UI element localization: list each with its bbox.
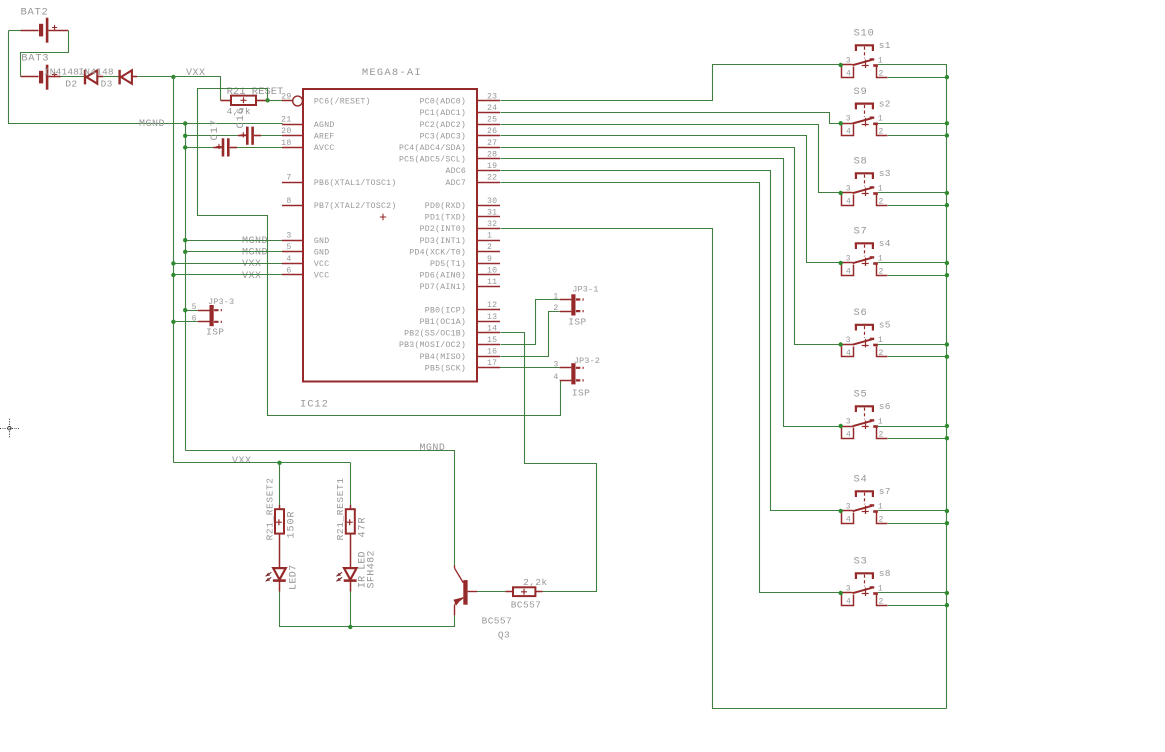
svg-text:VXX: VXX [242,271,262,282]
wire VXX to R21_RESET1 [350,463,352,505]
node C16 left junction [183,134,187,138]
svg-text:S3: S3 [854,556,868,568]
wire S7 pin1 to trunk [878,262,947,264]
wire PC4/ADC4 pin27 to S6 [501,148,841,345]
svg-text:MEGA8-AI: MEGA8-AI [362,67,422,79]
svg-text:JP3-1: JP3-1 [572,285,598,295]
pin 12 PB0(ICP) [477,309,500,311]
wire VXX bottom rail [174,462,351,464]
wire S4 pin2 to trunk [888,523,947,525]
wire S10 pin1 to trunk [878,64,947,66]
pin 27 PC4(ADC4/SDA) [477,147,500,149]
svg-text:32: 32 [487,220,497,229]
svg-text:R21_RESET: R21_RESET [227,86,284,98]
node S7 pin3 junction [839,261,843,265]
svg-text:19: 19 [487,162,497,171]
svg-text:4: 4 [846,515,851,524]
wire RESET net loop to JP3-2 pin 4 [198,89,561,416]
battery BAT2 [21,30,39,32]
pin 9 PD5(T1) [477,263,500,265]
svg-text:3: 3 [846,56,851,65]
svg-text:JP3-2: JP3-2 [574,356,600,366]
node S4 pin3 junction [839,509,843,513]
wire PB2/SS pin14 to base resistor [501,333,597,592]
svg-text:ISP: ISP [568,316,586,327]
switch S7 [841,262,853,264]
pin 3 GND [282,240,303,242]
capacitor C16 [185,135,238,137]
svg-text:2,2k: 2,2k [523,577,547,588]
svg-text:S6: S6 [854,307,868,319]
node S8 pin3 junction [839,191,843,195]
resistor R21_RESET1 [350,505,352,509]
pin 25 PC2(ADC2) [477,124,500,126]
svg-text:4: 4 [846,349,851,358]
pin 31 PD1(TXD) [477,216,500,218]
switch S4 [841,510,853,512]
wire PC3/ADC3 pin26 to S7 [501,136,841,263]
pin 20 AREF [282,135,303,137]
svg-text:28: 28 [487,150,497,159]
node trunk junction S9 pin2 row [945,133,949,137]
pin 32 PD2(INT0) [477,228,500,230]
node junction JP3-3 pin6 [171,320,175,324]
pin 26 PC3(ADC3) [477,135,500,137]
pin 24 PC1(ADC1) [477,112,500,114]
wire S5 pin1 to trunk [878,426,947,428]
wire S8 pin2 to trunk [888,205,947,207]
svg-text:R21_RESET2: R21_RESET2 [264,477,275,540]
wire PC2/ADC2 pin25 to S8 [501,125,841,193]
capacitor C17 [185,147,213,149]
svg-text:1: 1 [878,254,883,263]
svg-text:18: 18 [281,139,291,148]
svg-text:22: 22 [487,174,497,183]
wire D3 to VXX node [137,76,173,78]
svg-text:s8: s8 [879,568,891,579]
svg-text:1: 1 [878,115,883,124]
diode D2 [84,70,86,85]
wire S9 pin2 to trunk [888,135,947,137]
wire S8 pin1 to trunk [878,192,947,194]
svg-text:PD3(INT1): PD3(INT1) [420,236,466,246]
svg-text:s1: s1 [879,40,891,51]
svg-text:2: 2 [879,430,884,439]
svg-text:23: 23 [487,92,497,101]
svg-text:8: 8 [286,197,291,206]
svg-text:s4: s4 [879,238,891,249]
wire PB4 MISO to JP3-1 pin 2 [501,312,560,357]
wire S9 pin1 to trunk [878,123,947,125]
node RESET junction at R21 right [265,98,269,102]
pin 19 ADC6 [477,170,500,172]
svg-text:PC3(ADC3): PC3(ADC3) [420,131,466,141]
pin 4 VCC [282,263,303,265]
pin 29 PC6(/RESET) [282,100,293,102]
svg-text:LED7: LED7 [289,564,300,590]
node trunk junction S4 pin2 row [945,521,949,525]
svg-text:MGND: MGND [242,236,268,247]
svg-text:4: 4 [846,197,851,206]
svg-text:20: 20 [281,127,291,136]
svg-text:5: 5 [286,243,291,252]
svg-text:4: 4 [846,430,851,439]
node junction pin6 [171,273,175,277]
svg-text:S7: S7 [854,226,868,238]
svg-text:3: 3 [846,336,851,345]
svg-text:PD4(XCK/T0): PD4(XCK/T0) [409,247,466,257]
node VXX bottom junction [277,461,281,465]
node trunk junction S6 pin2 row [945,355,949,359]
svg-text:SFH482: SFH482 [367,550,378,588]
svg-text:GND: GND [314,237,330,246]
svg-text:IN4148: IN4148 [44,67,80,78]
svg-text:PC1(ADC1): PC1(ADC1) [420,108,466,118]
svg-text:C16: C16 [235,107,247,128]
node trunk junction S7 pin2 row [945,273,949,277]
svg-text:26: 26 [487,127,497,136]
svg-text:MGND: MGND [419,443,445,454]
svg-text:10: 10 [487,266,497,275]
wire VXX vertical rail [173,77,175,463]
svg-text:ADC6: ADC6 [445,167,466,176]
node junction pin4 [171,261,175,265]
svg-text:4: 4 [553,373,558,382]
svg-text:PD6(AIN0): PD6(AIN0) [420,271,466,281]
wire MGND vertical rail [185,124,187,451]
svg-text:Q3: Q3 [498,629,510,640]
resistor 2,2k base resistor [506,591,514,593]
svg-text:AVCC: AVCC [314,144,335,153]
svg-text:2: 2 [879,597,884,606]
node junction pin5 [183,250,187,254]
connector JP3-2 [571,363,575,384]
switch S5 [841,426,853,428]
svg-text:4: 4 [286,255,291,264]
pin 7 PB6(XTAL1/TOSC1) [282,182,303,184]
resistor R21_RESET [221,100,232,102]
sheet origin marker [0,428,3,430]
pin 2 PD4(XCK/T0) [477,251,500,253]
svg-text:S10: S10 [854,28,875,40]
LED at x=350 [350,557,352,568]
svg-text:PD7(AIN1): PD7(AIN1) [420,282,466,292]
svg-text:3: 3 [846,502,851,511]
wire PC0/ADC0 pin23 to S10 [501,65,841,101]
svg-text:1: 1 [487,232,492,241]
svg-text:3: 3 [846,584,851,593]
pin 14 PB2(SS/OC1B) [477,332,500,334]
switch S9 [841,123,853,125]
pin 18 AVCC [282,147,303,149]
svg-text:1: 1 [553,292,558,301]
node S3 pin3 junction [839,591,843,595]
wire S7 pin2 to trunk [888,275,947,277]
wire LED bottom rail to Q3 emitter [280,616,455,627]
wire VXX to pin 4 [173,263,282,265]
node trunk junction S3 pin2 row [945,603,949,607]
wire BAT3 to D2 [61,76,85,78]
pin 6 VCC [282,274,303,276]
node S10 pin3 junction [839,63,843,67]
pin 15 PB3(MOSI/OC2) [477,344,500,346]
node trunk junction S6 pin1 row [945,342,949,346]
svg-text:7: 7 [286,174,291,183]
svg-text:17: 17 [487,359,497,368]
svg-text:PD2(INT0): PD2(INT0) [420,224,466,234]
wire LED cathode down [350,592,352,628]
svg-text:1: 1 [878,336,883,345]
svg-text:PC0(ADC0): PC0(ADC0) [420,97,466,107]
switch S10 [841,64,853,66]
pin 17 PB5(SCK) [477,367,500,369]
pin 23 PC0(ADC0) [477,100,500,102]
svg-text:30: 30 [487,197,497,206]
svg-text:15: 15 [487,336,497,345]
svg-text:3: 3 [846,184,851,193]
svg-text:s6: s6 [879,401,891,412]
svg-text:2: 2 [879,128,884,137]
svg-text:6: 6 [286,266,291,275]
svg-text:ISP: ISP [572,388,590,399]
wire PC5/ADC5 pin28 to S5 [501,159,841,427]
node trunk junction S3 pin1 row [945,591,949,595]
wire D2 to D3 [103,76,119,78]
wire VXX to JP3-3 pin 6 [173,321,198,323]
node trunk junction S5 pin2 row [945,436,949,440]
wire S6 pin2 to trunk [888,356,947,358]
svg-text:4: 4 [846,69,851,78]
svg-text:D3: D3 [101,79,113,90]
svg-text:PB0(ICP): PB0(ICP) [425,305,466,315]
svg-text:31: 31 [487,208,497,217]
svg-text:11: 11 [487,278,497,287]
pin 10 PD6(AIN0) [477,274,500,276]
wire R21 to pin 29 [267,100,283,102]
wire S4 pin1 to trunk [878,510,947,512]
node trunk junction S8 pin1 row [945,191,949,195]
svg-text:BC557: BC557 [511,599,542,610]
wire ADC7 pin22 to S3 [501,183,841,593]
pin 22 ADC7 [477,182,500,184]
node junction pin3 [183,238,187,242]
svg-text:R21_RESET1: R21_RESET1 [335,477,346,540]
svg-text:PC4(ADC4/SDA): PC4(ADC4/SDA) [399,143,466,153]
wire VXX to R21_RESET2 [279,463,281,505]
svg-text:AGND: AGND [314,121,335,130]
node VXX junction [171,75,175,79]
switch S6 [841,344,853,346]
svg-text:ISP: ISP [206,327,224,338]
node trunk junction S10 pin2 row [945,75,949,79]
connector JP3-3 [210,305,214,326]
wire S3 pin1 to trunk [878,592,947,594]
svg-text:AREF: AREF [314,132,335,141]
svg-text:PC5(ADC5/SCL): PC5(ADC5/SCL) [399,155,466,165]
pin 28 PC5(ADC5/SCL) [477,158,500,160]
svg-text:27: 27 [487,139,497,148]
svg-text:S5: S5 [854,389,868,401]
svg-text:VCC: VCC [314,272,330,281]
svg-text:PD1(TXD): PD1(TXD) [425,213,466,223]
svg-text:2: 2 [879,69,884,78]
node S9 pin3 junction [839,121,843,125]
svg-text:4: 4 [846,128,851,137]
svg-text:PC6(/RESET): PC6(/RESET) [314,97,371,107]
svg-text:13: 13 [487,313,497,322]
node trunk junction S5 pin1 row [945,424,949,428]
wire S6 pin1 to trunk [878,344,947,346]
svg-text:PB4(MISO): PB4(MISO) [420,352,466,362]
svg-text:3: 3 [846,115,851,124]
svg-text:D2: D2 [65,79,77,90]
svg-text:4: 4 [846,597,851,606]
LED at x=279 [279,557,281,568]
svg-text:21: 21 [281,116,291,125]
wire PC1/ADC1 pin24 to S9 [501,113,841,124]
wire MGND to JP3-3 pin 5 [185,310,198,312]
wire S5 pin2 to trunk [888,438,947,440]
svg-text:s3: s3 [879,168,891,179]
svg-text:BAT2: BAT2 [21,7,49,19]
wire MGND bottom rail to Q3 collector [186,451,455,566]
svg-text:GND: GND [314,248,330,257]
switch S3 [841,592,853,594]
op-amp IC12 MEGA8-AI body [303,89,477,382]
node C17 left junction [183,145,187,149]
svg-text:PB6(XTAL1/TOSC1): PB6(XTAL1/TOSC1) [314,178,397,188]
node S5 pin3 junction [839,424,843,428]
svg-text:S9: S9 [854,86,868,98]
svg-text:3: 3 [553,361,558,370]
svg-text:PB3(MOSI/OC2): PB3(MOSI/OC2) [399,340,466,350]
svg-text:2: 2 [553,304,558,313]
svg-text:BAT3: BAT3 [21,53,49,65]
node trunk junction S7 pin1 row [945,261,949,265]
svg-text:14: 14 [487,324,497,333]
svg-text:3: 3 [846,254,851,263]
connector JP3-1 [571,294,575,315]
wire MGND to pin 3 [185,240,282,242]
wire switch common trunk [946,65,948,709]
switch S8 [841,192,853,194]
svg-text:47R: 47R [357,516,368,537]
node trunk junction S4 pin1 row [945,509,949,513]
svg-text:BC557: BC557 [482,615,513,626]
pin 13 PB1(OC1A) [477,321,500,323]
svg-text:VXX: VXX [186,68,206,79]
wire S3 pin2 to trunk [888,605,947,607]
svg-text:2: 2 [879,515,884,524]
resistor R21_RESET2 [279,505,281,509]
svg-text:MGND: MGND [139,119,165,130]
svg-text:MGND: MGND [242,248,268,259]
wire PB3 MOSI to JP3-1 pin 1 [501,300,560,345]
svg-text:2: 2 [879,267,884,276]
wire ADC6 pin19 to S4 [501,171,841,511]
pin 30 PD0(RXD) [477,205,500,207]
pin 11 PD7(AIN1) [477,286,500,288]
svg-text:IC12: IC12 [300,399,329,411]
svg-text:S4: S4 [854,474,868,486]
svg-text:3: 3 [846,417,851,426]
svg-text:2: 2 [879,197,884,206]
wire MGND to pin 5 [185,251,282,253]
svg-text:s7: s7 [879,486,891,497]
IC origin mark [380,214,386,220]
battery BAT3 [21,76,39,78]
node trunk junction S8 pin2 row [945,203,949,207]
svg-text:25: 25 [487,116,497,125]
wire BAT2+ to BAT3- [21,31,69,77]
svg-text:S8: S8 [854,156,868,168]
node junction JP3-3 pin5 [183,308,187,312]
svg-text:PB1(OC1A): PB1(OC1A) [420,317,466,327]
svg-text:12: 12 [487,301,497,310]
svg-text:150R: 150R [287,510,298,538]
svg-text:1: 1 [878,502,883,511]
svg-text:24: 24 [487,104,497,113]
svg-text:3: 3 [286,232,291,241]
svg-text:2: 2 [487,243,492,252]
svg-text:VXX: VXX [242,259,262,270]
svg-text:s2: s2 [879,98,891,109]
svg-text:IN4148: IN4148 [78,67,114,78]
svg-text:1: 1 [878,417,883,426]
svg-text:6: 6 [192,315,197,324]
svg-text:PC2(ADC2): PC2(ADC2) [420,120,466,130]
wire PD2/INT0 pin32 to switch common trunk [501,229,947,709]
svg-text:16: 16 [487,348,497,357]
svg-text:VCC: VCC [314,260,330,269]
diode D3 [118,70,120,85]
wire VXX to R21_RESET [174,77,221,101]
pin 8 PB7(XTAL2/TOSC2) [282,205,303,207]
svg-text:5: 5 [192,303,197,312]
svg-text:29: 29 [281,92,291,101]
wire BAT2- to MGND rail [9,30,21,32]
node junction IR LED bottom [348,625,352,629]
svg-text:VXX: VXX [232,456,252,467]
pin 21 AGND [282,124,303,126]
svg-text:JP3-3: JP3-3 [208,297,234,307]
svg-text:s5: s5 [879,320,891,331]
wire Q3 base to resistor [477,591,506,593]
svg-text:PD5(T1): PD5(T1) [430,259,466,269]
svg-text:PD0(RXD): PD0(RXD) [425,201,466,211]
svg-text:PB5(SCK): PB5(SCK) [425,363,466,373]
svg-text:PB2(SS/OC1B): PB2(SS/OC1B) [404,329,466,339]
node S6 pin3 junction [839,342,843,346]
svg-text:PB7(XTAL2/TOSC2): PB7(XTAL2/TOSC2) [314,201,397,211]
node MGND junction [183,121,187,125]
wire S10 pin2 to trunk [888,77,947,79]
node trunk junction S9 pin1 row [945,121,949,125]
pin 1 PD3(INT1) [477,240,500,242]
svg-text:2: 2 [879,349,884,358]
wire LED cathode down [279,592,281,628]
wire PB5 SCK to JP3-2 pin 3 [500,367,560,369]
svg-text:9: 9 [487,255,492,264]
transistor Q3 BC557 [463,580,467,605]
wire VXX to pin 6 [173,274,282,276]
svg-text:4: 4 [846,267,851,276]
svg-text:ADC7: ADC7 [445,179,466,188]
pin 16 PB4(MISO) [477,356,500,358]
pin 5 GND [282,251,303,253]
svg-text:C17: C17 [209,119,221,140]
